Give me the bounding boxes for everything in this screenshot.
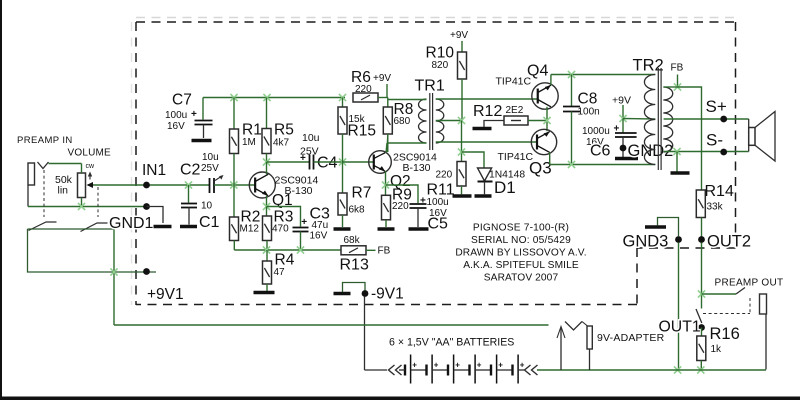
capacitor C1 lead top [188,185,190,203]
wire IN1 to C2 [147,184,210,186]
resistor R8 lead top [387,98,389,108]
svg-text:4k7: 4k7 [273,138,290,149]
label lin [58,185,69,197]
label 6k8 [349,205,366,216]
svg-text:R16: R16 [710,325,740,343]
C6 +9V tick [622,105,624,119]
label R16 [710,325,740,343]
resistor R4 [263,261,272,284]
svg-text:VOLUME: VOLUME [68,148,112,159]
preamp jack sleeve lead [765,314,767,370]
svg-text:C5: C5 [428,216,449,233]
switch link dash 1 [43,170,45,217]
resistor R8 [383,107,392,134]
ground R7 [334,227,351,230]
wire jack sleeve down [27,185,29,207]
svg-text:10u: 10u [302,132,320,144]
capacitor C5 [410,204,427,208]
label 68k [344,235,361,246]
speaker jog bottom [748,145,750,151]
label FB top [671,63,684,74]
junction preamp tap [698,290,705,297]
ground C7 [192,139,212,142]
junction C8 top [568,71,575,78]
junction Q1 emitter C3 [263,203,270,210]
label 1M [242,137,256,148]
svg-text:+: + [498,361,503,370]
ground C5 [409,227,429,230]
wire emitter to C5 [386,185,419,203]
capacitor C1 [181,204,197,208]
label 100n [578,107,600,118]
TR1 primary lead bottom [387,142,427,144]
OUT1 switch blade [696,309,702,323]
svg-text:33k: 33k [707,202,724,213]
svg-text:-9V1: -9V1 [371,286,404,303]
svg-text:S-: S- [706,131,723,150]
svg-text:A.K.A. SPITEFUL SMILE: A.K.A. SPITEFUL SMILE [463,260,579,271]
resistor R7 lead top [342,162,344,193]
label C1 [199,214,220,231]
junction R16 bottom [697,366,704,373]
label VOLUME [68,148,112,159]
label TR2 [633,57,664,75]
battery lead right [518,369,524,371]
label +9V main [373,73,391,84]
resistor R5 lead top [266,98,268,129]
svg-text:lin: lin [58,185,69,197]
wire to Q2 base [343,161,375,163]
capacitor C4 [310,155,314,170]
transistor Q4 [532,83,558,109]
capacitor C6 lead bottom [622,137,624,157]
label 15k [349,114,366,125]
TR1 core [430,93,433,150]
label M12 [240,224,260,235]
svg-text:TR1: TR1 [415,78,445,95]
svg-text:PREAMP IN: PREAMP IN [17,135,73,146]
svg-text:PREAMP OUT: PREAMP OUT [715,278,784,289]
resistor R2 lead top [233,185,235,217]
input jack sleeve contact [28,163,35,185]
terminal GND3 bar [645,225,666,228]
ground C6 [615,157,638,160]
capacitor C2 [210,178,215,193]
preamp jack contact [736,288,745,295]
FB lead [677,75,679,88]
resistor R13 lead right [366,249,376,251]
title line 4 [463,260,579,271]
label C7 plus [191,109,197,120]
label OUT1 [659,319,701,336]
resistor R9 [382,195,391,220]
label R12 [473,103,502,120]
label R9 220 [392,201,409,212]
label cw [86,163,96,170]
diode D1 lead [484,182,486,195]
TR2 secondary S+ lead [664,118,749,120]
label GND3 [623,233,669,251]
label 33k [707,202,724,213]
jack switch blade 1 [29,222,57,231]
svg-text:C1: C1 [199,214,220,231]
svg-text:+: + [477,361,482,370]
power switch arrow [557,327,565,371]
node OUT2 [698,236,705,243]
svg-text:R1: R1 [242,122,262,139]
svg-text:D1: D1 [494,178,516,197]
wire switch loop [28,228,115,230]
wire tap to TR2 [623,118,655,121]
transformer TR2 secondary [663,87,672,152]
resistor R7 lead bottom [342,215,344,227]
ground GND1 [154,225,172,228]
wire C2 to Q1 base [214,184,255,186]
resistor R16 lead top [701,328,703,337]
svg-text:C8: C8 [578,91,598,108]
resistor R14 [696,190,705,218]
resistor R7 [338,193,347,215]
+9V rail tick [386,84,388,98]
battery lead left [399,369,405,371]
label 9V-ADAPTER [597,332,665,344]
resistor R16 [697,336,706,361]
label C6 16V [586,137,604,148]
svg-text:+9V: +9V [612,95,631,107]
label Q2 [390,173,411,190]
svg-text:S+: S+ [706,97,727,116]
resistor R8 lead bottom [387,134,389,152]
junction R5-Q1 [263,158,270,165]
Q4 collector lead [550,75,552,86]
terminal -9V1 step [343,283,366,293]
junction pot bottom [78,198,85,211]
svg-text:100n: 100n [578,107,600,118]
label C4 25V [300,146,319,158]
amp boundary top dashed [136,21,736,23]
label D1 [494,178,516,197]
junction C1 tap [185,181,192,188]
junction node R3 [263,246,270,253]
label batteries [389,337,514,349]
junction FB [674,83,681,90]
ground TR2 S- [671,171,690,174]
svg-text:220: 220 [436,170,453,181]
label TR1 [415,78,445,95]
svg-text:C4: C4 [317,155,338,172]
battery cells [405,355,525,384]
junction node C3 [297,246,304,253]
svg-text:+: + [301,217,307,228]
label Q1 [272,192,293,209]
svg-text:+: + [191,109,197,120]
capacitor C1 lead bottom [188,208,190,225]
svg-text:220: 220 [355,84,372,95]
speaker [749,112,775,162]
wire GND3 down [678,243,680,371]
svg-text:R11: R11 [427,182,455,199]
wire loop left-bottom [28,229,157,272]
junction +9V1 riser [110,268,117,275]
wire ground bus to GND1 [28,206,147,208]
junction C6 tap [619,115,626,122]
resistor R12 [504,116,528,125]
junction R1-R2 tap [230,181,237,188]
label C5 100u [427,197,449,208]
svg-text:6k8: 6k8 [349,205,366,216]
svg-text:+: + [520,361,525,370]
resistor R15 lead top [342,98,344,108]
adapter contact link [582,322,588,327]
resistor R15 [338,107,347,134]
Q1 emitter lead [266,196,268,207]
resistor R1 [230,129,239,154]
label R9 [392,187,412,204]
svg-text:Q3: Q3 [529,159,552,178]
svg-text:C2: C2 [180,162,201,179]
resistor R2 lead bottom [233,241,235,251]
amp boundary right dashed [735,22,737,248]
label R5 [274,122,294,139]
label R6 [351,69,371,86]
svg-text:10: 10 [201,201,213,212]
label Q3 TIP41C [498,151,534,163]
amp boundary notch top dashed [637,247,736,249]
wire Q1 emitter to R3 [266,207,268,217]
junction Q2 emitter C5 [382,181,389,188]
amp boundary ghost dash [136,17,737,19]
svg-text:OUT2: OUT2 [707,233,751,251]
Q3 emitter lead [549,152,551,164]
label 820 [432,60,449,71]
resistor R6 lead right [378,97,388,99]
resistor R3 lead bottom [266,241,268,251]
wire -9V1 to battery [365,369,388,371]
pot wiper arrow wire [87,182,147,188]
svg-text:25V: 25V [201,163,219,174]
svg-text:OUT1: OUT1 [659,319,701,336]
node S+ [706,97,728,122]
9V adapter jack tip [587,326,592,349]
junction rail R1 [230,94,237,101]
svg-text:FB: FB [671,63,684,74]
label Q4 [527,63,548,80]
svg-text:47u: 47u [312,220,329,231]
ground R4 [254,291,275,294]
svg-text:M12: M12 [240,224,260,235]
svg-text:C7: C7 [172,92,192,109]
node IN1 [142,162,166,188]
capacitor C7 lead [202,98,204,120]
preamp switch link dash [703,298,750,314]
svg-text:R14: R14 [705,183,734,200]
amp boundary bottom dashed [136,304,637,306]
svg-text:PIGNOSE 7-100-(R): PIGNOSE 7-100-(R) [473,223,569,234]
ground C1 [180,225,197,228]
junction R15-R7 [339,158,346,165]
svg-text:+: + [455,361,460,370]
Q2 emitter lead [385,171,387,195]
svg-text:16V: 16V [310,231,328,242]
wire -9V1 to battery [364,297,366,371]
label C4 plus [300,153,306,164]
ground R11 [453,194,472,197]
bottom image border [0,397,800,400]
label C4 10u [302,132,320,144]
wire emitter to C3 [267,207,301,227]
Q4 emitter to Q3 collector [546,107,548,131]
svg-text:68k: 68k [344,235,361,246]
label C8 [578,91,598,108]
transistor Q2 [369,151,392,174]
label C5 16V [429,208,447,219]
label R15 [348,123,376,140]
resistor R4 lead top [266,250,268,261]
R10 +9V tick [461,41,463,52]
GND1 ground lead [147,207,164,224]
resistor R15 lead bottom [342,134,344,162]
capacitor C8 lead bottom [571,112,573,165]
wire emitter line [550,164,656,166]
svg-text:GND3: GND3 [623,233,669,251]
label +9V C6 [612,95,631,107]
node OUT1 [698,324,705,331]
terminal GND3 step [658,218,679,237]
battery connector left [389,365,402,375]
label C3 16V [310,231,328,242]
svg-text:R12: R12 [473,103,502,120]
svg-text:820: 820 [432,60,449,71]
svg-text:1k: 1k [711,344,723,355]
label C4 [317,155,338,172]
svg-text:10u: 10u [202,152,219,163]
junction rail R5 [263,94,270,101]
wire +9V rail [203,97,345,99]
label 50k [55,174,73,186]
label +9V R10 [450,30,468,41]
svg-text:GND1: GND1 [109,215,154,232]
svg-text:C6: C6 [590,143,611,160]
amp boundary notch left dashed [636,248,638,305]
svg-text:16V: 16V [167,121,185,132]
label R11 [427,182,455,199]
amp boundary ghost left [131,22,133,305]
svg-text:9V-ADAPTER: 9V-ADAPTER [597,332,665,344]
svg-text:cw: cw [86,163,96,170]
label R10 [426,45,455,62]
label GND1 [109,215,154,232]
junction C8 bottom [568,161,575,168]
resistor R4 lead bottom [266,284,268,291]
resistor R16 lead bottom [700,361,702,371]
svg-text:R4: R4 [275,252,295,269]
svg-text:R7: R7 [352,185,372,202]
svg-text:DRAWN BY LISSOVOY A.V.: DRAWN BY LISSOVOY A.V. [455,248,586,259]
resistor R11 [457,162,466,187]
resistor R2 [230,217,239,241]
resistor R5 [262,129,271,154]
label C7 16V [167,121,185,132]
input jack tip contact [38,162,49,169]
label FB node [378,246,391,257]
svg-text:220: 220 [392,201,409,212]
svg-text:SARATOV 2007: SARATOV 2007 [484,273,559,284]
resistor R1 lead top [233,98,235,130]
svg-text:6 × 1,5V "AA" BATTERIES: 6 × 1,5V "AA" BATTERIES [389,337,514,349]
label Q1 B-130 [285,185,313,197]
svg-text:R15: R15 [348,123,376,140]
node -9V1 [362,286,404,303]
speaker jog top [748,119,750,128]
diode D1 [478,168,493,182]
svg-text:1M: 1M [242,137,256,148]
label R4 [275,252,295,269]
resistor R10 [458,52,467,79]
label Q3 [529,159,552,178]
capacitor C7 lead bottom [203,125,205,139]
label C5 plus [420,196,426,207]
svg-text:FB: FB [378,246,391,257]
amp boundary left dashed [135,22,137,305]
label C2 10u [202,152,219,163]
label PREAMP IN [17,135,73,146]
svg-text:TIP41C: TIP41C [496,76,532,88]
capacitor C7 [195,121,213,125]
svg-text:R13: R13 [340,257,369,274]
label R2 [241,209,261,226]
label C3 47u [312,220,329,231]
label 4k7 [273,138,290,149]
svg-text:R10: R10 [426,45,455,62]
ground R9 [378,227,395,230]
capacitor C6 [615,133,637,137]
resistor R12 lead right [528,120,547,122]
label R8 [394,101,414,118]
junction bias tap [458,117,465,124]
svg-text:+9V: +9V [373,73,391,84]
label C6 [590,143,611,160]
TR2 secondary top lead [664,86,678,88]
resistor R6 [353,93,378,102]
svg-text:IN1: IN1 [142,162,166,179]
TR1 secondary lead top [436,98,539,100]
left image border [0,0,2,400]
capacitor C8 [563,107,580,112]
C2 polarity arrow [215,175,224,181]
svg-text:+: + [420,196,426,207]
label C7 [172,92,192,109]
label 470 [272,224,289,235]
preamp jack tip [760,294,767,314]
svg-text:100u: 100u [427,197,449,208]
wire bottom bus [537,369,766,371]
label Q1 2SC9014 [275,175,319,187]
wire to D1 [462,152,485,168]
node GND1 [143,203,150,210]
label Q4 TIP41C [496,76,532,88]
resistor R1 lead bottom [233,154,235,186]
ground R12 [473,127,492,130]
label 680 [394,116,411,127]
title line 1 [473,223,569,234]
TR1 primary lead top [388,99,427,101]
junction mid R12 [543,117,550,124]
label C6 plus [614,124,620,135]
label R7 [352,185,372,202]
label Q2 B-130 [403,162,431,174]
node GND2 [620,145,627,152]
resistor R11 lead bottom [461,186,463,194]
